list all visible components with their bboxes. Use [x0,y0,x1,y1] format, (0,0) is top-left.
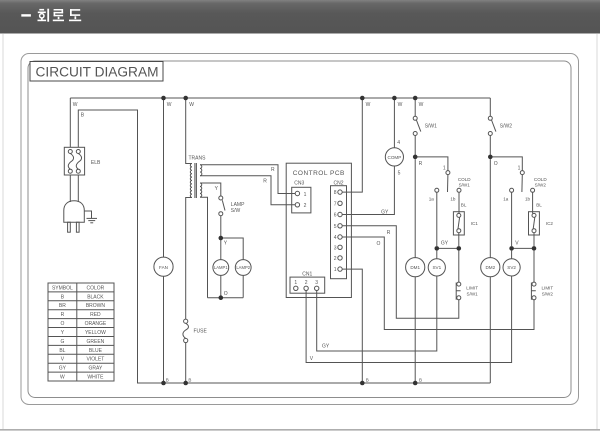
svg-text:ELB: ELB [91,160,101,166]
svg-text:GY: GY [441,241,449,247]
svg-text:B: B [188,377,191,382]
svg-text:1: 1 [304,192,307,198]
svg-text:O: O [60,321,64,327]
svg-text:5: 5 [334,224,337,230]
svg-text:TRANS: TRANS [189,156,207,162]
svg-text:VIOLET: VIOLET [87,357,105,363]
svg-text:GY: GY [59,366,67,372]
svg-text:S/W1: S/W1 [467,292,479,297]
svg-text:BR: BR [59,303,66,309]
svg-text:CN1: CN1 [302,272,312,278]
svg-text:BL: BL [536,203,542,208]
svg-text:O: O [494,161,498,167]
svg-text:BL: BL [59,348,65,354]
svg-text:S/W2: S/W2 [542,292,554,297]
svg-text:RED: RED [90,312,101,318]
svg-text:LAMP2: LAMP2 [236,265,250,270]
svg-text:O: O [376,241,380,247]
svg-text:1a: 1a [503,196,509,201]
svg-text:R: R [387,230,391,236]
svg-text:COLD: COLD [458,177,471,182]
svg-text:ORANGE: ORANGE [85,321,107,327]
svg-text:3: 3 [315,280,318,286]
svg-text:GY: GY [322,344,330,350]
svg-text:FAN: FAN [159,265,168,270]
svg-text:BLACK: BLACK [87,294,104,300]
svg-text:WHITE: WHITE [87,375,104,381]
svg-text:6: 6 [334,213,337,219]
svg-text:W: W [189,102,194,108]
svg-text:CIRCUIT DIAGRAM: CIRCUIT DIAGRAM [36,65,159,80]
svg-text:5: 5 [398,171,401,177]
svg-text:S/W2: S/W2 [535,183,547,188]
svg-text:3: 3 [334,245,337,251]
svg-text:BLUE: BLUE [89,348,103,354]
svg-text:YELLOW: YELLOW [85,330,106,336]
svg-text:1: 1 [294,280,297,286]
svg-text:S/W2: S/W2 [500,124,512,130]
svg-text:W: W [398,102,403,108]
svg-text:GREEN: GREEN [87,339,105,345]
svg-text:B: B [166,377,169,382]
svg-text:IC2: IC2 [546,221,554,226]
svg-text:8: 8 [334,190,337,196]
svg-text:W: W [366,102,371,108]
svg-text:1: 1 [443,165,446,171]
svg-text:DM2: DM2 [485,265,495,270]
svg-text:2: 2 [304,203,307,209]
svg-text:SYMBOL: SYMBOL [52,285,73,291]
svg-text:R: R [61,312,65,318]
svg-text:W: W [167,102,172,108]
svg-text:SV1: SV1 [432,265,441,270]
svg-text:SV2: SV2 [507,265,516,270]
svg-text:FUSE: FUSE [194,328,208,334]
svg-text:GY: GY [381,210,389,216]
svg-text:LIMIT: LIMIT [542,286,554,291]
svg-text:4: 4 [334,235,337,241]
svg-text:G: G [60,339,64,345]
svg-text:LAMP1: LAMP1 [214,265,228,270]
svg-text:IC1: IC1 [471,221,479,226]
svg-text:GRAY: GRAY [88,366,102,372]
svg-text:COLOR: COLOR [87,285,105,291]
svg-text:B: B [366,378,369,383]
svg-text:1: 1 [334,267,337,273]
svg-text:W: W [419,102,424,108]
svg-text:S/W1: S/W1 [459,183,471,188]
svg-text:COMP: COMP [388,155,402,160]
svg-text:1b: 1b [525,196,531,201]
svg-text:O: O [224,291,228,297]
svg-text:CN2: CN2 [333,180,343,186]
svg-text:R: R [271,167,275,173]
svg-text:1: 1 [518,165,521,171]
svg-text:S/W: S/W [231,208,241,214]
svg-text:R: R [263,178,267,184]
svg-text:CONTROL PCB: CONTROL PCB [293,170,345,177]
svg-text:W: W [73,102,78,108]
svg-text:1b: 1b [450,196,456,201]
svg-text:COLD: COLD [534,177,547,182]
svg-text:1a: 1a [429,196,435,201]
svg-text:4: 4 [397,140,400,146]
svg-text:R: R [419,161,423,167]
svg-text:W: W [60,375,65,381]
svg-text:B: B [419,378,422,383]
svg-text:LIMIT: LIMIT [466,286,478,291]
svg-text:CN3: CN3 [294,180,304,186]
svg-text:S/W1: S/W1 [425,124,437,130]
svg-text:2: 2 [305,280,308,286]
svg-text:BROWN: BROWN [86,303,106,309]
svg-text:7: 7 [334,201,337,207]
svg-text:DM1: DM1 [410,265,420,270]
svg-text:BL: BL [461,203,467,208]
svg-text:2: 2 [334,256,337,262]
